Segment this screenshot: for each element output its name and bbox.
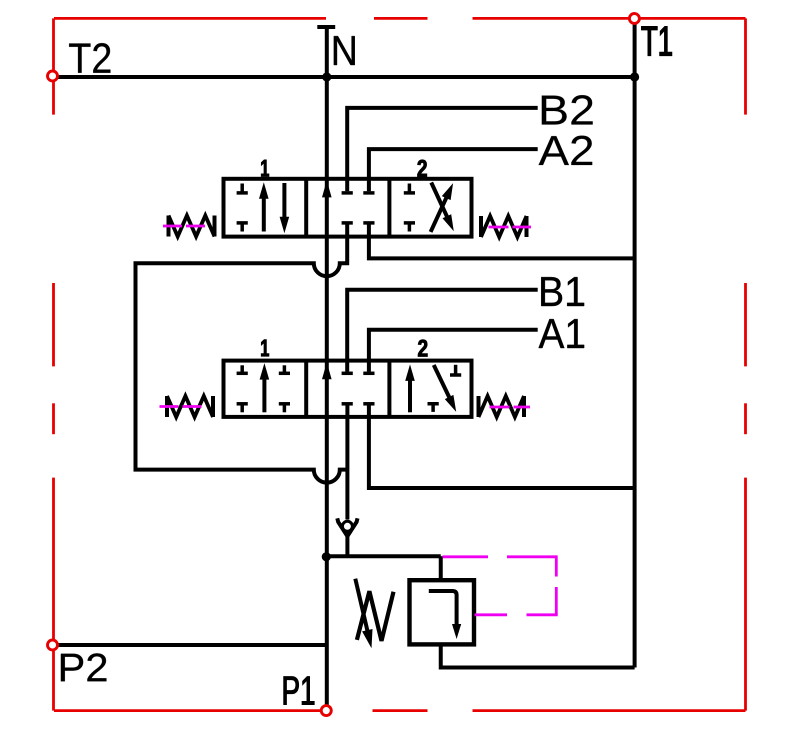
wire check valve lower	[345, 536, 349, 557]
relief valve RV1 pilot line (magenta dashed)	[443, 555, 558, 614]
enclosure border left (red dashed)	[52, 18, 55, 710]
pilot dash V1 left (magenta)	[163, 225, 207, 228]
wire A2 line	[369, 149, 538, 191]
node junction N-T2	[322, 72, 331, 81]
valve V2 body (3-position spool)	[224, 361, 472, 417]
wire A1 line	[369, 330, 538, 372]
label A1	[539, 319, 585, 348]
valve V2 position-1 box symbols	[237, 363, 290, 412]
wire main vertical P1-N line	[325, 77, 329, 705]
wire T1 vertical	[633, 24, 637, 668]
valve V2 centre box symbols (open centre, blocked A/B)	[322, 362, 375, 404]
label A2	[539, 136, 593, 165]
enclosure border right (red dashed)	[744, 18, 747, 710]
port T1 circle	[629, 14, 639, 24]
relief valve RV1 adjustable spring with arrow	[355, 579, 393, 649]
wire T2 rail	[58, 75, 635, 79]
enclosure border bottom (red dashed)	[54, 709, 746, 712]
wire N stub	[325, 27, 329, 77]
label B1	[541, 277, 584, 306]
enclosure border top (red dashed)	[54, 17, 746, 20]
port N tick	[317, 25, 335, 29]
wire bypass feed valve1 to valve2	[136, 225, 348, 483]
pilot dash V2 left (magenta)	[160, 405, 205, 408]
wire B2 line	[347, 108, 538, 191]
label P2	[61, 653, 106, 681]
pilot dash V2 right (magenta)	[490, 406, 531, 409]
valve V2 position-2 box symbols	[405, 364, 461, 412]
label V1 position 1	[261, 160, 269, 177]
label T2	[69, 43, 110, 73]
label V1 position 2	[418, 160, 427, 177]
wire valve1 tank return to T1	[369, 225, 635, 259]
port T2 circle	[48, 71, 58, 81]
spring V2 left	[167, 396, 213, 417]
wire P2 line	[58, 643, 327, 647]
spring V1 right	[481, 216, 527, 237]
node junction T1-T2	[630, 72, 639, 81]
wire relief inlet drop	[439, 556, 443, 580]
wire relief outlet	[441, 644, 635, 667]
wire check valve upper	[345, 405, 349, 519]
node junction pump line	[322, 552, 331, 561]
label V2 position 1	[261, 340, 269, 357]
label P1	[284, 677, 314, 705]
label B2	[542, 95, 593, 124]
wire B1 line	[347, 290, 538, 372]
label V2 position 2	[418, 340, 427, 357]
relief valve RV1 body	[410, 580, 475, 644]
valve V1 centre box symbols (open centre, blocked A/B)	[322, 180, 375, 223]
label T1	[642, 27, 672, 56]
label N	[334, 36, 355, 65]
check valve CV1 (ball in seat)	[337, 518, 357, 536]
valve V1 position-1 box symbols	[237, 182, 290, 233]
port P2 circle	[48, 640, 58, 650]
pilot dash V1 right (magenta)	[489, 226, 532, 229]
wire valve2 tank return to T1	[369, 405, 635, 488]
port P1 circle	[321, 706, 331, 716]
valve V1 body (3-position spool)	[224, 179, 472, 237]
spring V2 right	[479, 396, 525, 417]
spring V1 left	[169, 216, 215, 237]
valve V1 position-2 box symbols (crossed)	[404, 183, 454, 232]
wire pump junction to relief valve	[326, 554, 440, 558]
